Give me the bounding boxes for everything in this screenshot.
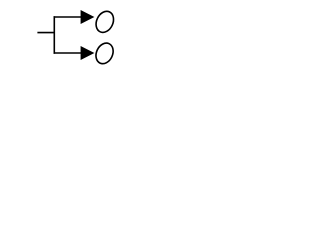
wire: bottom branch bbox=[54, 52, 82, 54]
wire: top branch bbox=[54, 16, 82, 18]
wire: vertical branch bus bbox=[53, 16, 55, 54]
arrowhead A2 (bottom) bbox=[81, 46, 95, 60]
wire: input stub bbox=[37, 32, 55, 34]
arrowhead A1 (top) bbox=[81, 10, 95, 24]
output ellipse O2 (bottom) bbox=[93, 40, 117, 66]
output ellipse O1 (top) bbox=[93, 8, 117, 35]
